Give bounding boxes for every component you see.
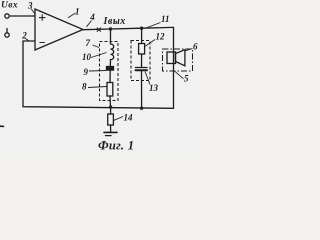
svg-text:2: 2 <box>21 31 27 41</box>
svg-text:12: 12 <box>156 32 166 42</box>
svg-text:Фиг. 1: Фиг. 1 <box>98 139 134 153</box>
svg-text:Iвых: Iвых <box>103 16 126 27</box>
svg-text:14: 14 <box>124 113 134 123</box>
svg-text:4: 4 <box>89 12 95 22</box>
svg-text:7: 7 <box>86 38 91 48</box>
svg-text:5: 5 <box>184 74 189 84</box>
svg-text:3: 3 <box>27 0 33 10</box>
svg-text:Uвх: Uвх <box>1 0 18 10</box>
svg-text:9: 9 <box>84 67 89 77</box>
svg-text:11: 11 <box>161 14 170 24</box>
svg-text:1: 1 <box>75 6 80 16</box>
svg-text:13: 13 <box>149 83 159 93</box>
svg-text:10: 10 <box>82 52 92 62</box>
svg-text:8: 8 <box>82 81 87 91</box>
svg-text:6: 6 <box>193 42 198 52</box>
